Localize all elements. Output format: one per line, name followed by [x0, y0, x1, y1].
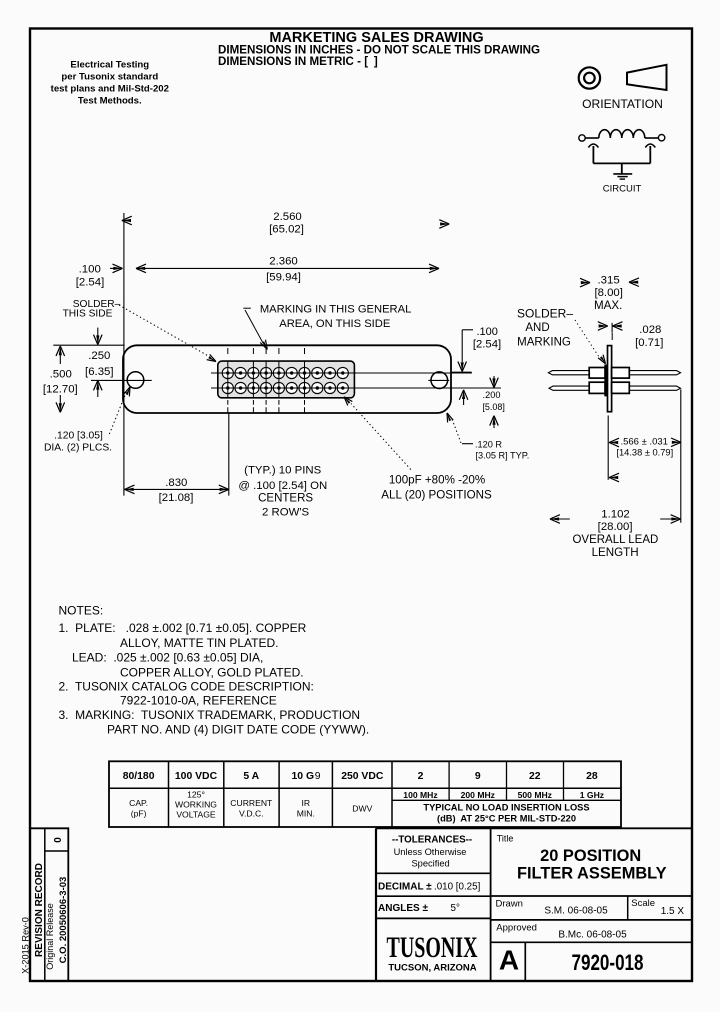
svg-text:.830: .830: [165, 477, 187, 489]
svg-text:.566 ± .031: .566 ± .031: [620, 437, 667, 448]
svg-text:VOLTAGE: VOLTAGE: [176, 810, 216, 820]
svg-text:per Tusonix standard: per Tusonix standard: [61, 71, 158, 82]
svg-text:2: 2: [418, 771, 424, 782]
svg-text:.120 R: .120 R: [475, 439, 502, 449]
svg-text:.028: .028: [639, 324, 661, 336]
svg-text:MARKING: MARKING: [517, 337, 571, 349]
svg-text:AREA, ON THIS SIDE: AREA, ON THIS SIDE: [279, 318, 390, 330]
svg-text:250 VDC: 250 VDC: [341, 771, 384, 782]
svg-text:2. TUSONIX CATALOG CODE DESCR: 2. TUSONIX CATALOG CODE DESCRIPTION:: [59, 680, 314, 694]
svg-text:100 VDC: 100 VDC: [175, 771, 218, 782]
svg-text:Approved: Approved: [496, 923, 537, 934]
svg-text:0: 0: [53, 837, 64, 843]
svg-text:Unless Otherwise: Unless Otherwise: [394, 847, 467, 857]
svg-text:3. MARKING: TUSONIX TRADEMAR: 3. MARKING: TUSONIX TRADEMARK, PRODUCTIO…: [59, 708, 361, 722]
svg-text:[2.54]: [2.54]: [473, 339, 501, 351]
svg-text:10 G: 10 G: [292, 771, 315, 782]
svg-text:20 POSITION: 20 POSITION: [540, 847, 641, 865]
svg-text:1.102: 1.102: [601, 508, 630, 520]
svg-text:.010 [0.25]: .010 [0.25]: [434, 882, 481, 893]
svg-text:FILTER ASSEMBLY: FILTER ASSEMBLY: [517, 865, 667, 883]
svg-text:NOTES:: NOTES:: [59, 604, 104, 618]
svg-text:.315: .315: [598, 274, 620, 286]
svg-text:ORIENTATION: ORIENTATION: [582, 97, 663, 111]
svg-text:2 ROW'S: 2 ROW'S: [262, 507, 310, 519]
svg-text:X-2015 Rev-0: X-2015 Rev-0: [20, 917, 30, 974]
svg-text:1.5 X: 1.5 X: [661, 906, 685, 917]
svg-text:CAP.: CAP.: [129, 798, 148, 808]
svg-text:100 MHz: 100 MHz: [403, 790, 437, 800]
svg-text:200 MHz: 200 MHz: [461, 790, 495, 800]
svg-text:MIN.: MIN.: [297, 809, 315, 819]
svg-text:Scale: Scale: [631, 898, 655, 909]
svg-text:[2.54]: [2.54]: [76, 277, 105, 289]
svg-text:B.Mc. 06-08-05: B.Mc. 06-08-05: [558, 930, 627, 941]
svg-text:A: A: [499, 944, 519, 975]
svg-text:(dB) AT 25°C PER MIL-STD-220: (dB) AT 25°C PER MIL-STD-220: [437, 814, 576, 824]
svg-text:7922-1010-0A, REFERENCE: 7922-1010-0A, REFERENCE: [120, 694, 277, 708]
svg-text:ANGLES ±: ANGLES ±: [378, 903, 428, 914]
svg-text:1. PLATE: .028 ±.002 [0.71: 1. PLATE: .028 ±.002 [0.71 ±0.05]. COPPE…: [59, 621, 307, 635]
svg-text:5 A: 5 A: [243, 771, 259, 782]
svg-text:Test Methods.: Test Methods.: [78, 96, 142, 107]
svg-text:IR: IR: [302, 798, 311, 808]
svg-text:REVISION RECORD: REVISION RECORD: [34, 863, 45, 957]
svg-text:DWV: DWV: [352, 804, 372, 814]
svg-text:[28.00]: [28.00]: [598, 521, 633, 533]
svg-text:(pF): (pF): [131, 809, 147, 819]
svg-text:9: 9: [475, 771, 481, 782]
svg-text:--TOLERANCES--: --TOLERANCES--: [392, 834, 472, 845]
svg-text:C.O. 20050606-3-03: C.O. 20050606-3-03: [58, 877, 69, 964]
svg-text:.100: .100: [79, 264, 101, 276]
svg-text:DECIMAL ±: DECIMAL ±: [378, 882, 432, 893]
svg-text:.100: .100: [476, 326, 497, 338]
svg-text:CURRENT: CURRENT: [230, 798, 273, 808]
svg-text:S.M. 06-08-05: S.M. 06-08-05: [544, 906, 608, 917]
svg-text:5°: 5°: [451, 903, 460, 914]
svg-text:[0.71]: [0.71]: [635, 337, 663, 349]
svg-text:7920-018: 7920-018: [572, 950, 644, 975]
svg-text:TUSONIX: TUSONIX: [387, 931, 478, 964]
svg-text:[8.00]: [8.00]: [594, 287, 623, 299]
svg-text:SOLDER–: SOLDER–: [517, 307, 573, 321]
svg-text:2.560: 2.560: [273, 211, 302, 223]
svg-text:PART NO. AND (4) DIGIT DATE CO: PART NO. AND (4) DIGIT DATE CODE (YYWW).: [107, 723, 369, 737]
svg-text:100pF +80% -20%: 100pF +80% -20%: [389, 474, 485, 487]
svg-text:CIRCUIT: CIRCUIT: [603, 184, 642, 195]
svg-text:test plans and Mil-Std-202: test plans and Mil-Std-202: [51, 84, 169, 95]
svg-text:TUCSON, ARIZONA: TUCSON, ARIZONA: [388, 963, 476, 974]
svg-text:.120 [3.05]: .120 [3.05]: [54, 431, 103, 442]
svg-text:9: 9: [315, 771, 321, 782]
svg-text:THIS SIDE: THIS SIDE: [63, 309, 113, 320]
svg-text:125°: 125°: [187, 790, 205, 800]
svg-text:ALL (20) POSITIONS: ALL (20) POSITIONS: [381, 489, 492, 502]
svg-text:WORKING: WORKING: [175, 800, 217, 810]
svg-text:22: 22: [529, 771, 541, 782]
svg-text:[6.35]: [6.35]: [85, 366, 114, 378]
svg-text:.200: .200: [483, 390, 501, 400]
svg-text:AND: AND: [525, 322, 549, 334]
svg-text:Drawn: Drawn: [496, 899, 523, 910]
svg-text:1 GHz: 1 GHz: [580, 790, 604, 800]
svg-text:LEAD: .025 ±.002 [0.63 ±0.05]: LEAD: .025 ±.002 [0.63 ±0.05] DIA,: [72, 651, 263, 665]
svg-text:80/180: 80/180: [123, 771, 155, 782]
svg-text:[59.94]: [59.94]: [266, 272, 301, 284]
svg-text:DIMENSIONS IN METRIC - [ ]: DIMENSIONS IN METRIC - [ ]: [218, 55, 378, 68]
svg-text:28: 28: [586, 771, 598, 782]
svg-text:@ .100 [2.54] ON: @ .100 [2.54] ON: [238, 480, 327, 492]
svg-text:[5.08]: [5.08]: [482, 402, 505, 412]
svg-text:(TYP.) 10 PINS: (TYP.) 10 PINS: [244, 465, 321, 477]
svg-text:Electrical Testing: Electrical Testing: [70, 59, 149, 70]
svg-text:CENTERS: CENTERS: [258, 493, 313, 505]
svg-text:.500: .500: [50, 369, 72, 381]
svg-text:[65.02]: [65.02]: [269, 224, 304, 236]
svg-text:500 MHz: 500 MHz: [518, 790, 552, 800]
svg-text:Specified: Specified: [411, 859, 449, 869]
svg-text:Original Release: Original Release: [45, 903, 55, 970]
svg-text:.250: .250: [88, 350, 110, 362]
svg-text:MARKING IN THIS GENERAL: MARKING IN THIS GENERAL: [260, 304, 411, 316]
svg-text:[12.70]: [12.70]: [43, 384, 78, 396]
svg-text:TYPICAL NO LOAD INSERTION LOSS: TYPICAL NO LOAD INSERTION LOSS: [423, 803, 589, 813]
svg-text:OVERALL LEAD: OVERALL LEAD: [572, 534, 658, 546]
svg-text:2.360: 2.360: [269, 256, 298, 268]
svg-text:MAX.: MAX.: [594, 299, 622, 312]
svg-text:[21.08]: [21.08]: [159, 492, 194, 504]
svg-text:ALLOY, MATTE TIN PLATED.: ALLOY, MATTE TIN PLATED.: [120, 636, 279, 650]
svg-text:COPPER ALLOY, GOLD PLATED.: COPPER ALLOY, GOLD PLATED.: [120, 666, 304, 680]
svg-text:Title: Title: [497, 834, 514, 844]
svg-text:[3.05 R] TYP.: [3.05 R] TYP.: [476, 451, 530, 461]
svg-text:[14.38 ± 0.79]: [14.38 ± 0.79]: [616, 447, 673, 457]
svg-text:DIA. (2) PLCS.: DIA. (2) PLCS.: [44, 442, 112, 453]
svg-text:V.D.C.: V.D.C.: [239, 809, 264, 819]
svg-text:LENGTH: LENGTH: [592, 546, 639, 559]
